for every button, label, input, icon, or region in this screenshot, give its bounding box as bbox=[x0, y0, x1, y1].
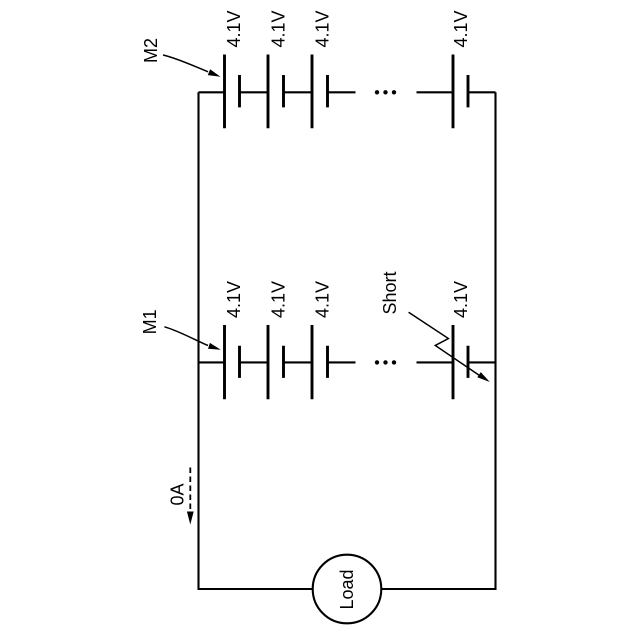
svg-text:4.1V: 4.1V bbox=[313, 10, 333, 47]
svg-text:Load: Load bbox=[337, 569, 357, 609]
svg-text:M1: M1 bbox=[140, 309, 160, 334]
svg-text:4.1V: 4.1V bbox=[451, 281, 471, 318]
svg-text:4.1V: 4.1V bbox=[451, 10, 471, 47]
svg-text:4.1V: 4.1V bbox=[224, 281, 244, 318]
svg-text:4.1V: 4.1V bbox=[269, 281, 289, 318]
svg-text:0A: 0A bbox=[168, 483, 188, 505]
svg-text:4.1V: 4.1V bbox=[269, 10, 289, 47]
svg-text:M2: M2 bbox=[141, 38, 161, 63]
svg-text:4.1V: 4.1V bbox=[313, 281, 333, 318]
svg-text:4.1V: 4.1V bbox=[224, 10, 244, 47]
svg-text:Short: Short bbox=[380, 271, 400, 314]
